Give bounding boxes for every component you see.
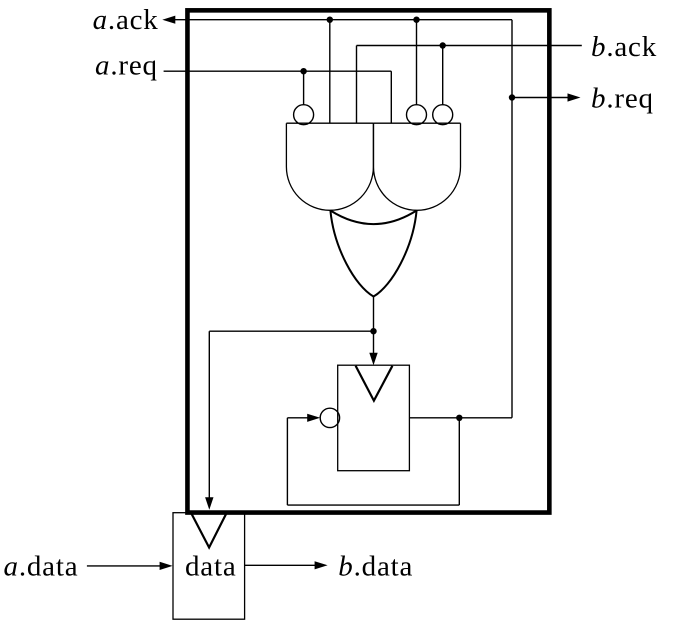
- latch U1 box: [338, 365, 410, 471]
- node latch output feedback branch: [456, 415, 462, 421]
- wire feedback bottom horizontal: [287, 504, 459, 506]
- module boundary (thick box): [187, 10, 549, 512]
- arrow a.data into data latch: [160, 562, 173, 570]
- wire feedback left vertical: [286, 418, 288, 505]
- arrow b.data output: [315, 561, 328, 569]
- svg-text:b.ack: b.ack: [591, 31, 657, 63]
- arrow into data latch clock: [205, 497, 213, 510]
- wire b.ack branch into right AND bubble: [442, 46, 444, 105]
- latch U1 clock triangle: [356, 366, 393, 401]
- wire latch output to enable net: [409, 417, 512, 419]
- wire a.req horizontal: [164, 70, 392, 72]
- data latch box: [173, 513, 245, 620]
- wire a.req branch into left AND bubble: [303, 71, 305, 105]
- arrow into control latch clock: [369, 353, 377, 366]
- svg-text:a.req: a.req: [95, 49, 158, 81]
- wire branch to data latch (vertical): [208, 331, 210, 498]
- AND gate G2 (right): [374, 123, 461, 210]
- latch U1 inverter bubble on enable input: [320, 408, 339, 427]
- node on a.ack line branching to left AND: [327, 17, 333, 23]
- wire feedback into bubble: [287, 417, 308, 419]
- wire b.data: [245, 564, 316, 566]
- svg-text:b.data: b.data: [338, 550, 413, 582]
- inverter bubble on right AND input (from a.ack): [407, 105, 427, 125]
- wire a.ack horizontal (net aack along top): [175, 19, 512, 21]
- node OR output branch: [370, 328, 376, 334]
- data latch clock triangle: [191, 514, 226, 548]
- inverter bubble on left AND input (from a.req): [294, 105, 314, 125]
- wire b.ack horizontal: [357, 45, 582, 47]
- svg-text:a.data: a.data: [4, 550, 79, 582]
- OR gate G3: [330, 211, 416, 297]
- svg-text:a.ack: a.ack: [93, 4, 159, 36]
- wire b.ack vertical into left AND gate: [356, 46, 358, 124]
- AND gate G1 (left): [286, 123, 373, 210]
- wire feedback right vertical: [458, 418, 460, 505]
- arrow into latch bubble: [307, 414, 320, 422]
- wire a.ack branch into right AND bubble: [416, 20, 418, 105]
- wire branch to data latch (horizontal): [209, 330, 373, 332]
- arrow a.ack output (points left): [162, 16, 175, 24]
- arrow b.req output (points right): [568, 93, 581, 101]
- svg-text:data: data: [185, 550, 237, 582]
- node on b.ack line branching to right AND bubble: [440, 42, 446, 48]
- node on a.ack line branching to right AND bubble: [413, 17, 419, 23]
- wire a.data: [87, 565, 161, 567]
- svg-text:b.req: b.req: [591, 82, 654, 114]
- wire OR gate output: [373, 297, 375, 332]
- node on a.req line branching to left AND bubble: [300, 68, 306, 74]
- wire enable vertical (aack net down right side to latch output): [511, 20, 513, 418]
- wire a.ack branch into left AND gate: [329, 20, 331, 124]
- wire b.req horizontal: [512, 97, 569, 99]
- inverter bubble on right AND input (from b.ack): [433, 105, 453, 125]
- wire into control latch clock: [373, 331, 375, 354]
- node b.req branch on enable net: [509, 94, 515, 100]
- wire a.req vertical into right AND gate: [390, 71, 392, 123]
